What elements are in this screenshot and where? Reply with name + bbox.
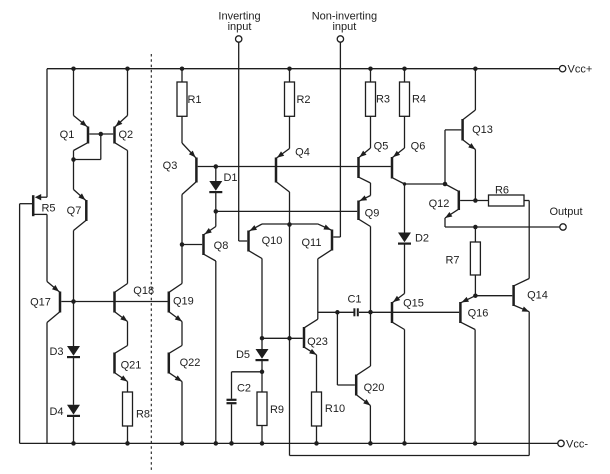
- wire R4 to Q6 emitter: [404, 116, 406, 148]
- svg-text:C1: C1: [347, 293, 361, 305]
- wire R9 to rail: [261, 426, 263, 444]
- junction dot Q12/Q13 node: [443, 182, 448, 187]
- wire R7 top: [474, 227, 476, 242]
- wire R2 to Q4 emitter: [289, 116, 291, 148]
- junction dot D5/C2/R9: [260, 370, 265, 375]
- wire Q20 emitter to rail: [369, 406, 371, 444]
- svg-text:Q23: Q23: [307, 336, 328, 348]
- wire Q21 emitter to R8: [127, 382, 129, 393]
- wire Q2 collector down: [127, 151, 129, 284]
- transistor Q22 (NPN): [168, 353, 171, 374]
- wire Q16 collector to rail: [474, 330, 476, 444]
- svg-text:input: input: [332, 21, 356, 33]
- wire R8 to rail: [127, 426, 129, 443]
- svg-text:D3: D3: [49, 346, 63, 358]
- wire R5 to Vcc- rail: [19, 204, 21, 444]
- wire Q9 collector down: [370, 227, 372, 367]
- wire Q2 emitter to rail: [127, 69, 129, 116]
- svg-text:Q1: Q1: [60, 129, 75, 141]
- non-inverting input terminal: [337, 36, 343, 42]
- Output terminal: [560, 224, 566, 230]
- wire Q19 emitter to Q22: [181, 322, 183, 346]
- wire Q10-Q11 emitter link: [262, 223, 318, 225]
- svg-text:Q19: Q19: [173, 295, 194, 307]
- resistor R4: [400, 82, 410, 116]
- junction dot C1/Q20 base: [335, 310, 340, 315]
- diode D3: [67, 346, 80, 356]
- wire R3 to rail: [370, 69, 372, 82]
- wire Q1-Q2 base link: [89, 133, 113, 135]
- svg-text:Q10: Q10: [262, 235, 283, 247]
- svg-text:Q17: Q17: [30, 296, 51, 308]
- svg-text:Q8: Q8: [214, 240, 229, 252]
- transistor Q4 (PNP): [275, 158, 278, 183]
- wire Q18 emitter to Q21: [127, 322, 129, 346]
- wire C2 to rail: [231, 404, 233, 443]
- wire R10 to rail: [316, 426, 318, 443]
- wire base link to Q1 collector: [74, 159, 101, 161]
- resistor R6: [489, 195, 525, 206]
- junction dot rail/R3: [368, 66, 373, 71]
- transistor Q1 (PNP): [87, 127, 90, 144]
- junction dot rail/Q2: [125, 66, 130, 71]
- svg-text:input: input: [228, 21, 252, 33]
- transistor Q23 (NPN): [303, 327, 306, 348]
- Vcc+ rail: [47, 68, 559, 70]
- wire R9 top: [261, 372, 263, 392]
- diode D1: [209, 181, 222, 191]
- wire R2 to rail: [289, 69, 291, 82]
- wire D5 cathode: [261, 360, 263, 372]
- svg-text:R6: R6: [495, 184, 509, 196]
- svg-text:Q9: Q9: [365, 207, 380, 219]
- svg-text:D5: D5: [236, 349, 250, 361]
- svg-text:Q14: Q14: [527, 289, 548, 301]
- svg-text:R2: R2: [296, 94, 310, 106]
- junction dot R8/rail: [125, 441, 130, 446]
- wire D1 anode: [215, 167, 217, 182]
- Vcc- rail: [20, 442, 558, 444]
- inverting input terminal: [236, 36, 242, 42]
- svg-text:Q11: Q11: [302, 237, 322, 249]
- resistor R8: [123, 392, 133, 426]
- svg-text:R8: R8: [136, 408, 150, 420]
- wire Q15 collector to rail: [404, 330, 406, 444]
- wire node to Q7 emitter: [73, 160, 75, 190]
- svg-text:Q4: Q4: [295, 146, 310, 158]
- junction dot rail/Q1: [71, 66, 76, 71]
- transistor Q20 (NPN): [355, 375, 358, 396]
- junction dot R7/Q16/Q14 node: [473, 293, 478, 298]
- wire Q8 emitter: [215, 211, 217, 226]
- wire Q13 collector to rail: [474, 69, 476, 110]
- left bias column middle segment: [46, 214, 48, 281]
- junction dot Q23 base node: [287, 336, 292, 341]
- junction dot rail/R2: [287, 66, 292, 71]
- wire Q12 emitter bend: [444, 218, 446, 227]
- wire Q14 emitter feedback: [528, 312, 530, 456]
- svg-text:Q16: Q16: [468, 307, 489, 319]
- svg-text:Q12: Q12: [429, 198, 450, 210]
- svg-text:Q18: Q18: [133, 285, 154, 297]
- svg-text:Q6: Q6: [411, 140, 426, 152]
- diode D5: [256, 349, 269, 359]
- wire Q12 base to R6: [460, 200, 488, 202]
- transistor Q15 (PNP): [391, 302, 394, 323]
- wire Q5 collector to Q9: [370, 183, 372, 196]
- wire Q1 emitter to rail: [73, 69, 75, 116]
- transistor Q18 (NPN): [113, 292, 116, 313]
- svg-text:R4: R4: [412, 93, 426, 105]
- wire C2 link: [232, 371, 263, 373]
- junction dot base link: [99, 132, 104, 137]
- left bias column lower segment: [46, 323, 48, 444]
- transistor Q6 (PNP): [391, 157, 394, 179]
- wire R6 right: [524, 200, 529, 202]
- wire Q20 base: [336, 312, 338, 385]
- transistor Q14 (NPN): [512, 285, 515, 306]
- wire Q4 collector: [289, 192, 291, 225]
- svg-text:D2: D2: [415, 232, 429, 244]
- svg-text:Q13: Q13: [472, 124, 493, 136]
- svg-text:R1: R1: [187, 94, 201, 106]
- wire D1 cathode: [215, 192, 217, 211]
- svg-text:R7: R7: [445, 254, 459, 266]
- svg-text:Q22: Q22: [180, 357, 201, 369]
- left bias column upper segment: [46, 69, 48, 198]
- inverting input wire: [238, 42, 240, 241]
- wire Q14 base: [475, 295, 512, 297]
- junction dot rail/R1: [180, 66, 185, 71]
- junction dot Q10/Q11 emitters: [287, 222, 292, 227]
- transistor Q8 (PNP): [202, 234, 205, 255]
- junction dot Q17 base line: [71, 299, 76, 304]
- wire C1 right to Q16 base: [359, 311, 459, 313]
- wire R1 to rail: [181, 69, 183, 82]
- diode D2: [398, 233, 411, 243]
- node Q6 collector: [403, 182, 406, 185]
- wire D4 to rail: [73, 416, 75, 443]
- junction dot D5 top: [260, 336, 265, 341]
- svg-text:Output: Output: [549, 206, 582, 218]
- wire Q23 emitter to R10: [316, 355, 318, 392]
- svg-text:Q20: Q20: [364, 382, 385, 394]
- wire D5 anode stub: [261, 338, 263, 349]
- Vcc- terminal: [558, 440, 564, 446]
- wire Q19 collector up: [181, 195, 183, 284]
- junction dot C2/rail: [229, 441, 234, 446]
- transistor Q17 (PNP): [59, 292, 62, 313]
- component R5 bar: [32, 195, 35, 216]
- svg-text:Q2: Q2: [118, 129, 133, 141]
- wire Q6c to Q12/Q13 node: [405, 183, 446, 185]
- wire Q13 base: [445, 129, 461, 131]
- transistor Q3 (PNP): [195, 158, 198, 183]
- resistor R10: [312, 392, 322, 426]
- capacitor C2: [227, 399, 237, 401]
- wire D2 cathode to Q15: [404, 244, 406, 294]
- svg-text:R10: R10: [325, 403, 345, 415]
- transistor Q10 (PNP): [247, 231, 250, 252]
- junction dot D1 anode: [214, 164, 219, 169]
- transistor Q11 (PNP): [331, 230, 334, 251]
- wire R7 bottom: [474, 275, 476, 296]
- svg-text:Q21: Q21: [121, 359, 142, 371]
- Vcc+ terminal: [559, 66, 565, 72]
- svg-text:R9: R9: [270, 404, 284, 416]
- wire Q23 base line: [262, 337, 303, 339]
- svg-text:R5: R5: [41, 202, 55, 214]
- R5 lower tap: [33, 213, 47, 215]
- junction dot Q12 base/Q13 emitter: [473, 198, 478, 203]
- dashed bias-separator line: [150, 54, 152, 470]
- resistor R9: [257, 392, 267, 426]
- junction dot Q9c/C1 node: [368, 310, 373, 315]
- transistor Q13 (NPN): [461, 119, 464, 141]
- wire R3 to Q5 emitter: [370, 116, 372, 148]
- wire R1 to Q3 emitter: [181, 116, 183, 143]
- capacitor C1: [353, 308, 355, 316]
- junction dot D1/Q8/Q9 node: [214, 209, 219, 214]
- junction dot Q16/rail: [473, 441, 478, 446]
- wire Q8 collector to rail: [215, 261, 217, 443]
- wire Q8 base: [182, 244, 202, 246]
- diode D4: [67, 405, 80, 415]
- junction dot Q1 collector node: [71, 157, 76, 162]
- wire output line: [445, 226, 560, 228]
- junction dot R9/rail: [260, 441, 265, 446]
- svg-text:C2: C2: [237, 382, 251, 394]
- junction dot rail/R4: [402, 66, 407, 71]
- junction dot output/R7: [473, 225, 478, 230]
- transistor Q16 (PNP): [459, 302, 462, 323]
- transistor Q2 (PNP): [113, 127, 116, 144]
- resistor R2: [285, 82, 295, 116]
- svg-text:Q5: Q5: [374, 140, 389, 152]
- svg-text:Q15: Q15: [403, 297, 424, 309]
- junction dot Q20/rail: [368, 441, 373, 446]
- svg-text:Q3: Q3: [163, 160, 178, 172]
- wire Q22 emitter to rail: [181, 382, 183, 444]
- wire Q10 collector down: [261, 259, 263, 339]
- transistor Q19 (NPN): [168, 292, 171, 313]
- junction dot Q15/rail: [402, 441, 407, 446]
- non-inverting input wire: [339, 42, 341, 237]
- junction dot Q22/rail: [180, 441, 185, 446]
- junction dot R10/rail: [314, 441, 319, 446]
- junction dot D4/rail: [71, 441, 76, 446]
- resistor R7: [470, 242, 480, 275]
- R5 arrow tap: [40, 196, 47, 198]
- wire D3 to D4: [73, 357, 75, 405]
- wire base link drop: [100, 134, 102, 160]
- resistor R3: [366, 82, 376, 116]
- transistor Q9 (PNP): [357, 201, 360, 221]
- junction dot rail/Q13: [473, 66, 478, 71]
- wire Q17/Q18/Q19 base line: [61, 301, 167, 303]
- transistor Q5 (PNP): [357, 157, 360, 178]
- svg-text:D1: D1: [223, 172, 237, 184]
- junction dot Q8/Vcc- rail: [214, 441, 219, 446]
- transistor Q7 (PNP): [85, 200, 88, 221]
- wire C1 left segment: [318, 311, 354, 313]
- svg-text:Vcc+: Vcc+: [568, 64, 593, 76]
- transistor Q21 (NPN): [113, 353, 116, 374]
- R5 left wire: [20, 203, 32, 205]
- wire D2 anode: [404, 184, 406, 233]
- transistor Q12: [458, 191, 461, 211]
- junction dot Q8 base node: [180, 242, 185, 247]
- resistor R1: [177, 82, 187, 116]
- wire Q1 collector: [73, 151, 75, 160]
- wire Q11 collector down: [317, 259, 319, 319]
- svg-text:Q7: Q7: [67, 205, 82, 217]
- wire R4 to rail: [404, 69, 406, 82]
- wire Q9 base line: [216, 210, 357, 212]
- wire Q3-Q6 base line: [198, 166, 391, 168]
- wire Q7 collector down to D3: [73, 231, 75, 347]
- svg-text:Vcc-: Vcc-: [566, 438, 588, 450]
- svg-text:D4: D4: [49, 406, 63, 418]
- svg-text:R3: R3: [376, 93, 390, 105]
- wire Q13 emitter down: [474, 150, 476, 201]
